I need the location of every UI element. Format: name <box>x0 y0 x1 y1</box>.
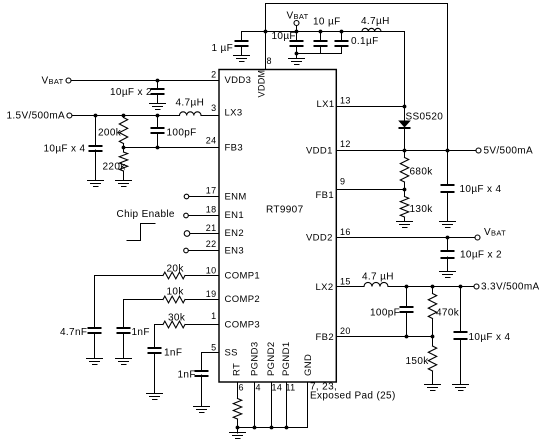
ground below C13 <box>116 359 132 365</box>
node bus junction PGND2 <box>270 426 274 430</box>
terminal EN2 <box>184 231 190 237</box>
pin name PGND1 (vertical) <box>281 342 292 376</box>
resistor R7 20k <box>163 264 185 279</box>
svg-text:20: 20 <box>340 326 351 336</box>
node VDD2 junction <box>446 236 450 240</box>
capacitor C13 1nF <box>117 300 150 359</box>
node bus junction RT <box>236 426 240 430</box>
svg-text:RT9907: RT9907 <box>266 205 304 216</box>
pin name VDD3 <box>225 75 252 86</box>
svg-text:19: 19 <box>206 289 217 299</box>
node junction VDDM/VBAT rail <box>264 30 268 34</box>
resistor R4 150k <box>406 337 437 385</box>
pin number 9 <box>340 177 345 187</box>
pin name EN2 <box>225 228 245 239</box>
wire VDD3 pin 2 <box>71 80 219 82</box>
wire EN2 pin 21 <box>190 233 219 235</box>
svg-text:VDD3: VDD3 <box>225 75 252 86</box>
inductor L1 4.7uH <box>361 16 390 32</box>
svg-text:EN1: EN1 <box>225 210 245 221</box>
pin number 21 <box>206 223 217 233</box>
node LX3 junction c <box>156 114 160 118</box>
capacitor C6 10uF x 2 <box>441 238 502 272</box>
svg-text:10µF: 10µF <box>272 31 296 42</box>
svg-text:20k: 20k <box>167 264 185 275</box>
capacitor C11 100pF <box>151 116 197 148</box>
svg-text:130k: 130k <box>410 204 434 215</box>
pin number 13 <box>340 96 351 106</box>
ground below C10 <box>88 181 104 187</box>
svg-text:PGND1: PGND1 <box>281 342 292 376</box>
svg-text:3: 3 <box>211 103 216 113</box>
inductor L2 4.7uH <box>362 272 394 287</box>
svg-text:SS: SS <box>225 347 238 358</box>
ground below C14 <box>147 394 163 400</box>
terminal 1.5V output <box>7 111 72 122</box>
node FB3 junction a <box>122 146 126 150</box>
pin number 17 <box>206 186 217 196</box>
wire VDDM pin 8 to top rail <box>265 4 267 70</box>
node LX2 junction c <box>459 285 463 289</box>
svg-text:21: 21 <box>206 223 217 233</box>
node FB3 junction b <box>156 146 160 150</box>
svg-text:10µF x 2: 10µF x 2 <box>110 87 152 98</box>
wire LX3 left part <box>72 115 180 117</box>
svg-text:VBAT: VBAT <box>287 11 309 22</box>
pin name ENM <box>225 192 247 203</box>
svg-text:100pF: 100pF <box>370 308 400 319</box>
capacitor C3 10uF <box>313 17 341 54</box>
pin name SS <box>225 347 238 358</box>
svg-text:18: 18 <box>206 205 217 215</box>
terminal 5V output <box>476 146 533 157</box>
svg-text:COMP1: COMP1 <box>225 270 261 281</box>
pin number 24 <box>206 136 217 146</box>
pin name LX1 <box>317 99 335 110</box>
pin number 2 <box>211 70 216 80</box>
pin number 19 <box>206 289 217 299</box>
svg-text:10: 10 <box>206 266 217 276</box>
svg-text:PGND2: PGND2 <box>266 342 277 376</box>
svg-text:14: 14 <box>272 383 283 393</box>
svg-text:LX2: LX2 <box>316 282 334 293</box>
pin name LX2 <box>316 282 334 293</box>
pin numbers 7, 23, exposed pad <box>310 382 396 402</box>
pin name PGND3 (vertical) <box>250 342 261 376</box>
pin number 1 <box>211 311 216 321</box>
wire VDD1 pin 12 to 5V output <box>336 150 476 152</box>
svg-text:10µF x 4: 10µF x 4 <box>469 332 511 343</box>
svg-text:30k: 30k <box>168 313 186 324</box>
wire FB3 pin 24 <box>124 147 220 149</box>
svg-text:220k: 220k <box>103 162 127 173</box>
pin name LX3 <box>225 108 243 119</box>
ground below R2 <box>397 222 413 228</box>
svg-text:Chip Enable: Chip Enable <box>117 209 175 220</box>
capacitor C14 1nF <box>148 325 183 394</box>
svg-text:1: 1 <box>211 311 216 321</box>
pin number 8 <box>267 56 272 66</box>
pin number 12 <box>340 139 351 149</box>
pin number 20 <box>340 326 351 336</box>
pin number 6 <box>239 383 244 393</box>
svg-text:8: 8 <box>267 56 272 66</box>
pin name FB1 <box>316 190 334 201</box>
capacitor C15 1nF <box>178 353 209 407</box>
node bus junction PGND3 <box>253 426 257 430</box>
pin name VDD2 <box>306 233 333 244</box>
wire LX1 pin 13 <box>336 106 404 108</box>
node bus junction PGND1 <box>285 426 289 430</box>
svg-text:1.5V/500mA: 1.5V/500mA <box>7 111 66 122</box>
label Chip Enable <box>117 209 175 220</box>
svg-text:COMP2: COMP2 <box>225 294 261 305</box>
svg-text:200k: 200k <box>98 128 122 139</box>
svg-text:VBAT: VBAT <box>484 227 506 238</box>
pin number 3 <box>211 103 216 113</box>
svg-text:10k: 10k <box>167 287 185 298</box>
svg-text:LX3: LX3 <box>225 108 243 119</box>
svg-text:16: 16 <box>340 227 351 237</box>
svg-text:100pF: 100pF <box>167 128 197 139</box>
wire COMP3 pin 1 right part <box>185 324 219 326</box>
ground below C6 <box>440 272 456 278</box>
wire VBAT rail <box>242 31 405 33</box>
svg-text:680k: 680k <box>410 167 434 178</box>
svg-text:VDD1: VDD1 <box>306 146 333 157</box>
svg-text:VDDM: VDDM <box>257 70 267 98</box>
node D1/VDD1 junction <box>403 149 407 153</box>
node FB1 junction <box>403 188 407 192</box>
node FB2 junction b <box>431 335 435 339</box>
svg-text:SS0520: SS0520 <box>406 112 444 123</box>
pin name VDD1 <box>306 146 333 157</box>
wire FB2 pin 20 <box>336 336 432 338</box>
svg-text:FB1: FB1 <box>316 190 334 201</box>
wire COMP1 left part <box>95 275 164 277</box>
wire COMP3 left part <box>155 324 164 326</box>
svg-text:1nF: 1nF <box>132 327 150 338</box>
wire PGND1 pin 11 <box>286 382 288 428</box>
terminal EN1 <box>184 213 189 218</box>
svg-text:4: 4 <box>256 383 261 393</box>
svg-text:LX1: LX1 <box>317 99 335 110</box>
capacitor C12 4.7nF <box>60 276 102 359</box>
wire COMP2 left part <box>124 299 164 301</box>
resistor R1 680k <box>400 151 433 190</box>
wire COMP2 pin 19 right part <box>185 299 219 301</box>
pin number 10 <box>206 266 217 276</box>
svg-text:5: 5 <box>211 343 216 353</box>
node LX2 junction b <box>431 285 435 289</box>
ground bottom <box>230 428 246 439</box>
svg-text:3.3V/500mA: 3.3V/500mA <box>481 282 540 293</box>
pin name FB3 <box>225 143 243 154</box>
svg-text:10µF x 4: 10µF x 4 <box>460 184 502 195</box>
svg-text:10 µF: 10 µF <box>313 17 341 28</box>
wire SS pin 5 <box>202 352 220 354</box>
resistor R2 130k <box>400 190 433 222</box>
wire VDD2 pin 16 to VBAT output <box>336 237 475 239</box>
wire LX2 pin 15 to inductor <box>336 286 364 288</box>
svg-text:0.1µF: 0.1µF <box>351 36 379 47</box>
svg-text:10µF x 4: 10µF x 4 <box>44 144 86 155</box>
svg-text:6: 6 <box>239 383 244 393</box>
ground below C2 <box>289 54 305 65</box>
svg-text:470k: 470k <box>436 308 460 319</box>
wire COMP1 pin 10 right part <box>185 275 219 277</box>
diode D1 SS0520 <box>398 107 443 151</box>
terminal ENM <box>184 194 189 199</box>
pin number 18 <box>206 205 217 215</box>
ground below C15 <box>194 407 210 413</box>
svg-text:EN3: EN3 <box>225 246 245 257</box>
wire right rail down to VDD1 <box>447 4 449 151</box>
resistor R6 220k <box>103 148 128 181</box>
ground below R6 <box>116 181 132 187</box>
IC U1 RT9907 chip body <box>219 70 336 383</box>
svg-text:GND: GND <box>303 354 314 376</box>
pin name FB2 <box>316 332 334 343</box>
ground below C12 <box>87 359 103 365</box>
pin number 15 <box>340 277 351 287</box>
ground below C1 <box>234 56 250 62</box>
terminal 3.3V output <box>474 282 540 293</box>
svg-text:22: 22 <box>206 239 217 249</box>
capacitor C1 1uF <box>212 32 249 56</box>
wire EN1 pin 18 <box>188 215 219 217</box>
chip enable step symbol <box>127 224 155 241</box>
svg-text:150k: 150k <box>406 356 430 367</box>
svg-text:Exposed Pad (25): Exposed Pad (25) <box>310 391 396 402</box>
wire GND pin <box>307 382 309 428</box>
capacitor C9 10uF x 2 <box>110 81 165 104</box>
wire ENM pin 17 <box>189 196 219 198</box>
capacitor C4 0.1uF <box>335 30 379 54</box>
svg-text:13: 13 <box>340 96 351 106</box>
pin name PGND2 (vertical) <box>266 342 277 376</box>
svg-text:12: 12 <box>340 139 351 149</box>
capacitor C7 100pF <box>370 287 414 337</box>
pin name VDDM (vertical) <box>257 70 267 98</box>
node LX3 junction b <box>122 114 126 118</box>
svg-text:24: 24 <box>206 136 217 146</box>
capacitor C10 10uF x 4 <box>44 116 103 181</box>
svg-text:2: 2 <box>211 70 216 80</box>
pin name GND (vertical) <box>303 354 314 376</box>
ground below C8 <box>453 385 469 391</box>
node LX1 junction <box>403 105 407 109</box>
pin number 4 <box>256 383 261 393</box>
ground below R4 <box>425 385 441 391</box>
wire top rail <box>266 3 448 5</box>
pin number 11 <box>286 383 296 393</box>
wire FB1 pin 9 <box>336 189 404 191</box>
node VDD1/rail junction <box>446 149 450 153</box>
svg-text:VDD2: VDD2 <box>306 233 333 244</box>
resistor R8 10k <box>163 287 185 303</box>
pin number 22 <box>206 239 217 249</box>
wire cap bottom rail <box>297 53 342 55</box>
svg-text:1nF: 1nF <box>164 348 182 359</box>
svg-text:ENM: ENM <box>225 192 247 203</box>
inductor L3 4.7uH <box>176 98 205 116</box>
svg-text:RT: RT <box>232 363 243 376</box>
wire PGND3 pin 4 <box>254 382 256 428</box>
node FB2 junction a <box>405 335 409 339</box>
ground below C9 <box>150 104 166 110</box>
svg-text:4.7µH: 4.7µH <box>361 16 390 27</box>
svg-text:4.7nF: 4.7nF <box>60 327 87 338</box>
resistor R5 200k <box>98 116 128 148</box>
wire VBAT terminal down <box>296 26 298 32</box>
ground below C5 <box>440 222 456 228</box>
svg-text:5V/500mA: 5V/500mA <box>484 146 534 157</box>
resistor R3 470k <box>428 287 459 337</box>
capacitor C5 10uF x 4 <box>441 151 502 222</box>
svg-text:4.7µH: 4.7µH <box>176 98 205 109</box>
node LX3 junction a <box>94 114 98 118</box>
svg-text:9: 9 <box>340 177 345 187</box>
terminal VBAT right <box>475 227 506 240</box>
svg-text:EN2: EN2 <box>225 228 245 239</box>
resistor R9 30k <box>163 313 186 328</box>
pin name EN3 <box>225 246 245 257</box>
pin number 16 <box>340 227 351 237</box>
wire LX3 pin 3 <box>201 115 219 117</box>
svg-text:15: 15 <box>340 277 351 287</box>
pin number 14 <box>272 383 283 393</box>
pin name RT (vertical) <box>232 363 243 376</box>
pin name EN1 <box>225 210 245 221</box>
svg-text:4.7 µH: 4.7 µH <box>362 272 394 283</box>
pin name COMP2 <box>225 294 261 305</box>
wire PGND2 pin 14 <box>271 382 273 428</box>
wire EN3 pin 22 <box>188 250 219 252</box>
svg-text:VBAT: VBAT <box>42 76 64 87</box>
svg-text:PGND3: PGND3 <box>250 342 261 376</box>
svg-text:1 µF: 1 µF <box>212 43 234 54</box>
resistor R10 RT <box>233 382 241 428</box>
capacitor C8 10uF x 4 <box>454 287 511 385</box>
terminal VBAT top <box>287 11 309 26</box>
node LX2 junction a <box>405 285 409 289</box>
node VDD3 junction <box>156 79 160 83</box>
pin number 5 <box>211 343 216 353</box>
node VBAT junction <box>295 30 299 34</box>
wire L2 to 3.3V output <box>388 286 474 288</box>
svg-text:1nF: 1nF <box>178 370 196 381</box>
wire L1 to LX1 column <box>381 32 405 107</box>
pin name COMP3 <box>225 320 261 331</box>
capacitor C2 10uF <box>272 31 304 54</box>
svg-text:10µF x 2: 10µF x 2 <box>460 250 502 261</box>
svg-text:FB3: FB3 <box>225 143 243 154</box>
wire bottom ground bus <box>238 427 308 429</box>
node cap bottom junction <box>295 52 299 56</box>
terminal VBAT left <box>42 76 72 87</box>
terminal EN3 <box>184 248 189 253</box>
svg-text:17: 17 <box>206 186 217 196</box>
pin name COMP1 <box>225 270 261 281</box>
svg-text:COMP3: COMP3 <box>225 320 261 331</box>
svg-text:FB2: FB2 <box>316 332 334 343</box>
